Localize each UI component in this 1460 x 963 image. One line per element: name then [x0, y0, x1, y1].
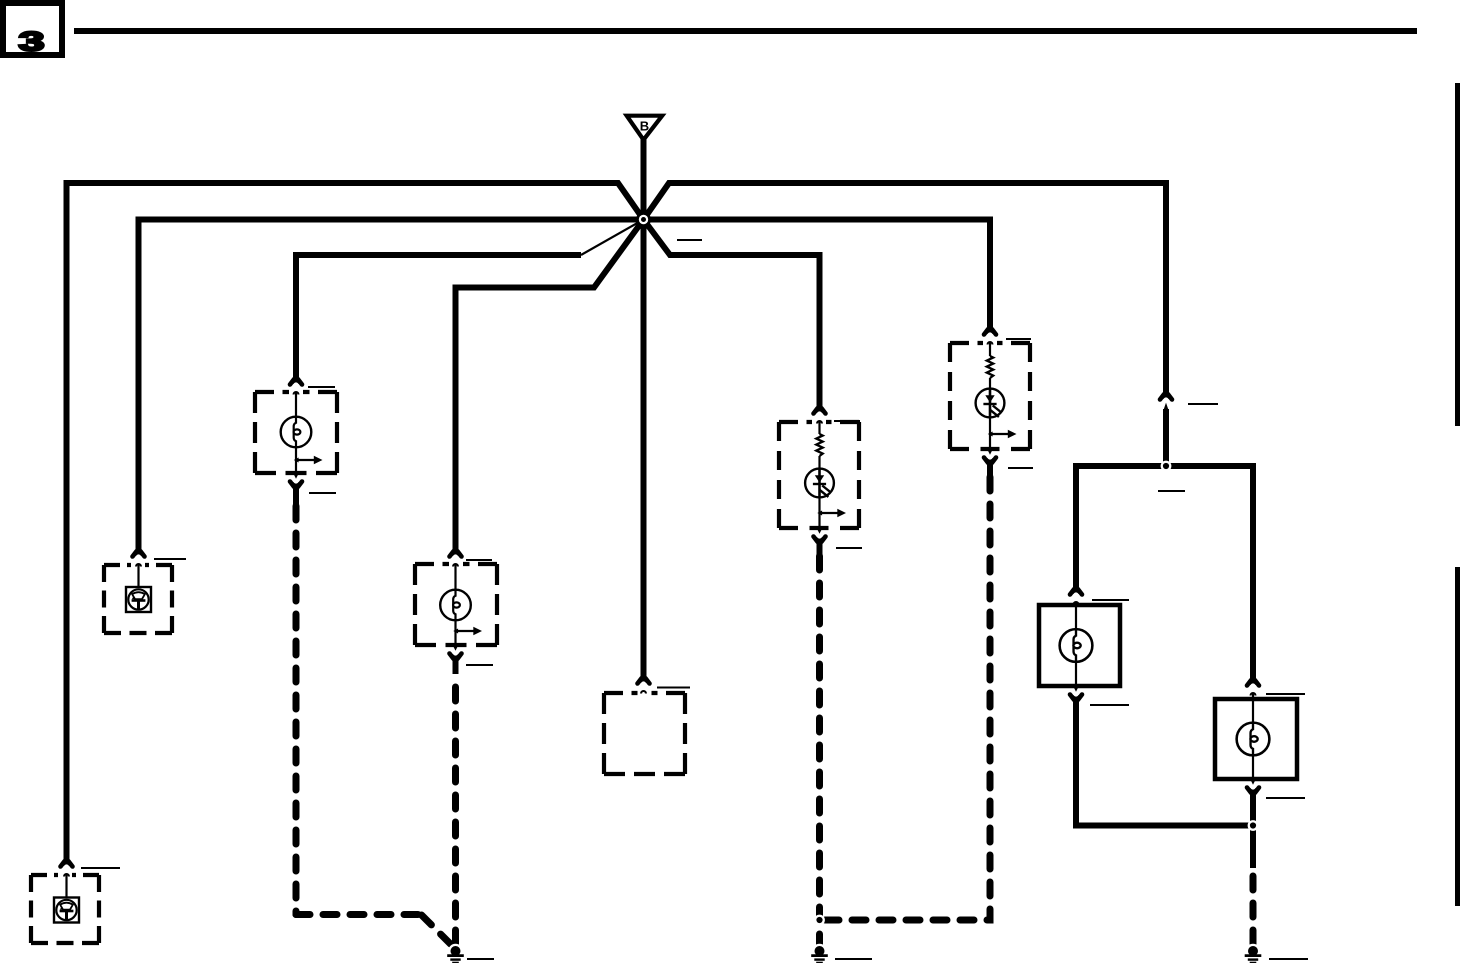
component box: right lamp A (solid): [1039, 605, 1120, 686]
lamp 2 pin and bulb: [454, 564, 456, 590]
component box: empty middle connector (dashed): [604, 693, 685, 774]
wire: LED2 ground stub: [987, 458, 993, 477]
LED 1 branch arrow: [817, 509, 846, 518]
label line: LED 2 bottom: [1008, 467, 1033, 469]
label line: node: [677, 239, 702, 241]
LED 1 pin, resistor, diode: [818, 421, 820, 434]
wire: run to lamp 2: [456, 220, 644, 557]
inline connector on right run: [1160, 394, 1172, 410]
wire: right lamp A return: [1076, 695, 1253, 826]
label line: connector: [1188, 403, 1218, 405]
terminal into speaker 2: [61, 861, 73, 899]
label line: right lamp B top: [1266, 693, 1305, 695]
svg-text:B: B: [640, 119, 649, 134]
component box: speaker 2 (dashed): [31, 875, 99, 943]
label line: ground 3: [1269, 958, 1308, 960]
wire: lamp2 dashed ground run: [452, 674, 459, 944]
label line: lamp 1 bottom: [309, 492, 336, 494]
LED 1 exit terminal: [814, 529, 826, 542]
wire: right lamp B return stub: [1250, 788, 1256, 868]
LED 2 branch arrow: [988, 430, 1017, 439]
right lamp B pin and bulb: [1252, 693, 1254, 723]
ground 3: [1245, 944, 1262, 963]
ground 1: [447, 944, 464, 963]
wire: lamp2 ground stub: [453, 654, 459, 674]
label line: middle box: [657, 687, 690, 689]
label line: right lamp A top: [1092, 599, 1129, 601]
wire: LED1 ground stub: [817, 537, 823, 556]
label line: LED 2 top: [1006, 338, 1031, 340]
node: LED ground junction: [814, 915, 825, 926]
wire: lamp1 ground stub: [293, 482, 299, 506]
terminal into LED 2: [984, 329, 996, 344]
label line: lamp 2 bottom: [466, 664, 493, 666]
LED 2 exit terminal: [984, 450, 996, 463]
page number box 3: [3, 3, 62, 57]
svg-text:3: 3: [19, 27, 45, 57]
component box: right lamp B (solid): [1215, 699, 1297, 779]
label line: lamp 2 top: [466, 559, 492, 561]
wire: right section dashed ground run: [1250, 868, 1257, 944]
lamp 1 pin and bulb: [295, 392, 297, 417]
label line: right junction: [1158, 490, 1185, 492]
wire: run to left column 1: [67, 183, 644, 866]
wire: run to lamp 1: [296, 255, 581, 384]
lamp 1 exit terminal: [290, 474, 302, 487]
power symbol triangle B: [627, 116, 663, 140]
wire: power feed B vertical trunk: [641, 139, 647, 683]
label line: LED 1 top: [834, 420, 860, 422]
top rule: [74, 28, 1417, 34]
right margin bar lower: [1455, 567, 1460, 906]
wire: LED1 dashed ground run: [816, 556, 823, 944]
wire: thin diagonal into node: [581, 220, 644, 256]
lamp 2 exit terminal: [450, 646, 462, 659]
wire: run to LED 1: [644, 220, 820, 414]
label line: speaker 1: [154, 558, 186, 560]
speaker 2 symbol: [54, 898, 79, 923]
lamp 1 branch arrow: [294, 456, 323, 465]
label line: ground 2: [835, 958, 872, 960]
wire: right section top rail: [1076, 466, 1253, 685]
label line: right lamp A bottom: [1090, 704, 1129, 706]
component box: lamp 2 (dashed): [415, 564, 497, 645]
speaker 1 symbol: [126, 587, 151, 612]
node: right lamps junction: [1248, 820, 1259, 831]
component box: LED 2 (dashed): [950, 343, 1030, 449]
node: connector junction right: [1161, 461, 1172, 472]
right lamp B exit terminal: [1247, 780, 1259, 793]
wire: connector lower stub: [1163, 409, 1169, 466]
right margin bar upper: [1455, 83, 1460, 426]
ground 2: [811, 944, 828, 963]
component box: speaker 1 (dashed): [104, 565, 172, 633]
terminal into right lamp B: [1247, 680, 1259, 695]
terminal into lamp 1: [290, 379, 302, 394]
lamp 2 branch arrow: [453, 627, 482, 636]
wire: LED2 dashed ground run: [823, 477, 990, 920]
right lamp A pin and bulb: [1075, 602, 1077, 629]
node B junction donut: [636, 212, 651, 227]
LED 2 pin, resistor, diode: [989, 342, 991, 356]
wire: run to left column 2: [139, 220, 644, 557]
terminal into lamp 2: [450, 551, 462, 566]
label line: lamp 1 top: [308, 386, 335, 388]
label line: right lamp B bottom: [1266, 797, 1305, 799]
terminal into speaker 1: [133, 551, 145, 588]
terminal into middle empty box: [638, 678, 650, 693]
label line: ground 1: [467, 958, 494, 960]
wire: lamp1 dashed ground run: [293, 506, 300, 915]
label line: speaker 2: [81, 867, 120, 869]
wire: run to LED 2: [644, 220, 991, 335]
component box: LED 1 (dashed): [779, 422, 859, 528]
wire: run to right connector column: [644, 183, 1167, 399]
terminal into LED 1: [814, 408, 826, 423]
terminal into right lamp A: [1070, 589, 1082, 604]
label line: LED 1 bottom: [836, 547, 862, 549]
right lamp A exit terminal: [1070, 687, 1082, 700]
component box: lamp 1 (dashed): [255, 392, 337, 473]
